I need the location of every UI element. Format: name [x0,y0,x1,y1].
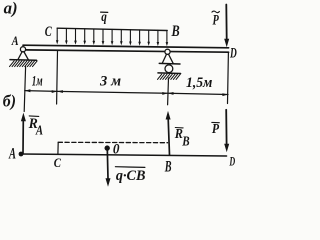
svg-text:0: 0 [113,142,120,158]
svg-text:A: A [35,122,43,137]
distributed load top line [57,28,167,30]
dimension line B-D [168,93,228,94]
svg-text:D: D [229,155,235,169]
resultant q·CB arrow [106,149,109,179]
force P arrow (part a) [225,5,227,40]
svg-text:P: P [212,121,220,136]
dimension line C-B [57,91,168,93]
point A dot [19,152,24,157]
svg-text:B: B [164,158,172,175]
centroid dot O [105,145,110,150]
dimension line A-C [25,90,58,93]
roller support B triangle [162,54,173,63]
roller support B hatching [158,74,181,79]
svg-text:P: P [213,13,220,29]
reaction R_A arrow [22,120,24,153]
pin support A triangle [18,52,29,60]
beam AD bottom line [25,50,229,52]
dashed load outline top (part b) [58,141,167,143]
roller support B plate line [159,62,180,65]
force P arrow (part b) [225,110,227,145]
dimension tick at B [167,78,170,105]
svg-text:б): б) [3,91,16,110]
beam AD top line [23,45,229,48]
reaction R_B arrow [168,119,169,155]
svg-text:B: B [181,133,189,148]
support A ground line [10,59,37,62]
svg-text:D: D [229,46,237,62]
beam line (part b) [21,154,227,156]
distributed load arrows [57,28,167,43]
svg-text:а): а) [4,0,18,18]
dimension tick at D [227,53,230,104]
dimension tick at C [56,51,59,104]
svg-text:B: B [171,23,180,40]
svg-text:C: C [45,24,53,40]
load outline left side at C (part b) [57,142,59,154]
svg-text:1,5м: 1,5м [186,75,212,91]
roller support B pin circle [165,49,170,54]
pin support A circle [20,47,25,52]
roller support B ground line [158,72,181,75]
svg-text:A: A [8,146,16,163]
svg-text:q·CB: q·CB [116,168,146,184]
roller support B roller circle [165,65,173,73]
svg-text:A: A [11,34,19,48]
dimension tick at A [24,67,25,112]
support A hatching [10,61,38,67]
svg-text:1м: 1м [32,74,43,90]
svg-text:C: C [54,155,61,170]
